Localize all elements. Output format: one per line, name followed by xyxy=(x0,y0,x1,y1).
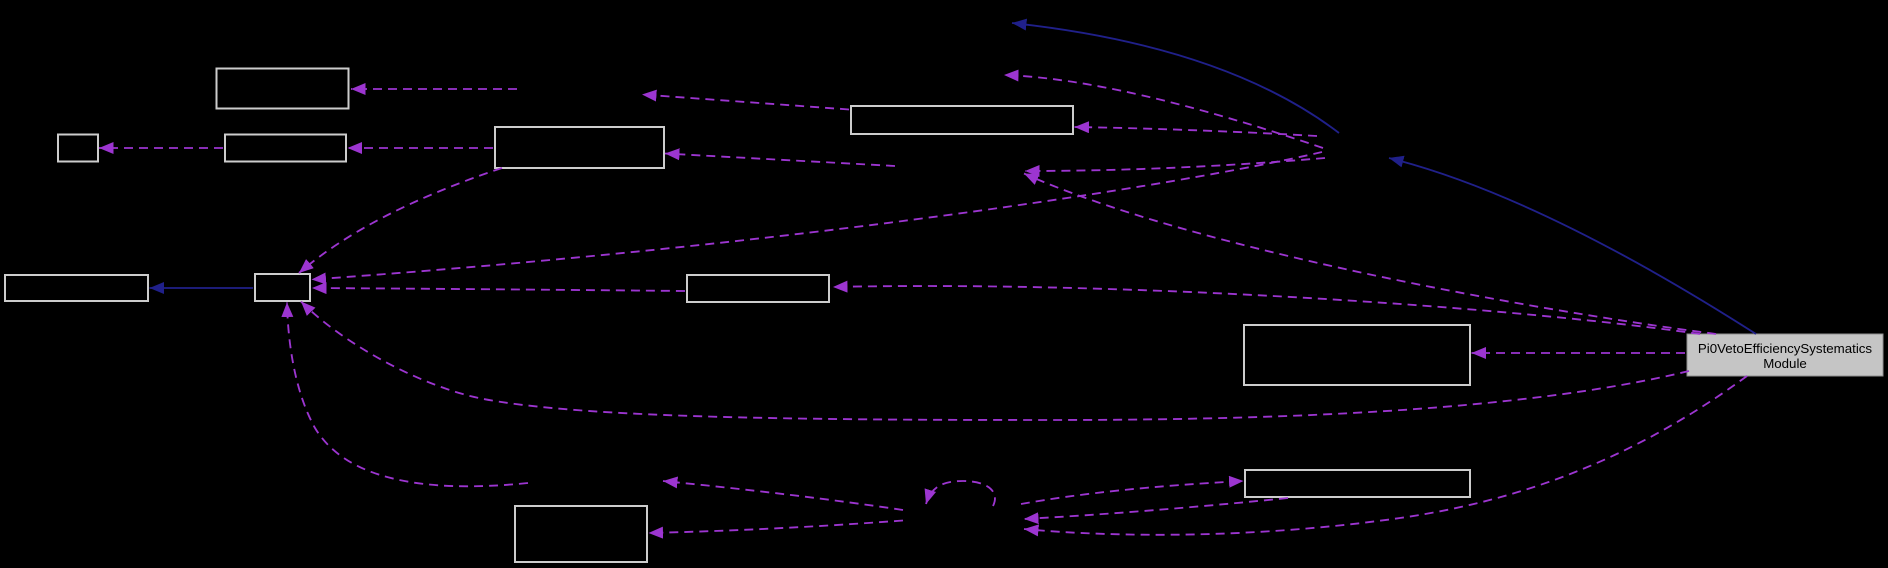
edge X3 <- main (blue solid curve) xyxy=(1389,158,1756,334)
edge G <- X5 (dashed) xyxy=(287,303,528,487)
node B (small box far left) xyxy=(58,135,98,162)
node G (small hub box middle-left) xyxy=(255,274,310,301)
edge G <- H (dashed) xyxy=(312,288,685,291)
edge G <- X3 (dashed) xyxy=(312,152,1323,280)
edge K <- X2 (dashed) xyxy=(649,521,904,534)
node E (wide box top middle) xyxy=(851,106,1073,134)
edge C <- D (dashed) xyxy=(348,147,494,149)
node F (left middle box) xyxy=(5,275,148,301)
edge F <- G (blue solid) xyxy=(150,287,254,289)
edge X6 <- X3 (dashed) xyxy=(1025,158,1325,171)
node I (right two-line box) xyxy=(1244,325,1470,385)
node C xyxy=(225,135,346,162)
edge X2 self-loop (dashed) xyxy=(926,481,995,506)
edge G <- main (long dashed curve) xyxy=(301,302,1689,421)
svg-text:Module: Module xyxy=(1763,356,1807,371)
main node Pi0VetoEfficiencySystematicsModule (grey filled) xyxy=(1687,334,1883,376)
edge B <- C (dashed) xyxy=(99,147,223,149)
edge D <- X6 (dashed) xyxy=(665,154,895,167)
node J (right lower box) xyxy=(1245,470,1470,497)
edge X2 <- J (dashed) xyxy=(1024,498,1288,519)
edge G <- D (dashed) xyxy=(299,168,502,273)
edge X1 <- E (dashed) xyxy=(642,95,849,110)
edge X2 <- main (long dashed curve bottom) xyxy=(1024,376,1747,535)
edge X5 <- X2 (dashed) xyxy=(663,481,903,510)
node D (two-line box) xyxy=(495,127,664,168)
node K (bottom-left two-line box) xyxy=(515,506,647,562)
edge J <- X2 (dashed, arrow pointing right) xyxy=(1021,481,1244,504)
svg-text:Pi0VetoEfficiencySystematics: Pi0VetoEfficiencySystematics xyxy=(1698,341,1873,356)
edge H <- main (dashed) xyxy=(833,286,1700,334)
edge E <- X3 (dashed) xyxy=(1075,127,1318,136)
edge A <- X1 (dashed) xyxy=(351,88,517,90)
edge I <- main (dashed) xyxy=(1472,352,1686,354)
node A (top-left two-line box) xyxy=(217,69,349,109)
node H (middle box) xyxy=(687,275,829,302)
edge X4b <- X3 (dashed) xyxy=(1004,75,1323,148)
edge X6 <- main (dashed upper) xyxy=(1024,174,1716,335)
edge X4a <- X3 (blue solid curve) xyxy=(1012,23,1339,133)
